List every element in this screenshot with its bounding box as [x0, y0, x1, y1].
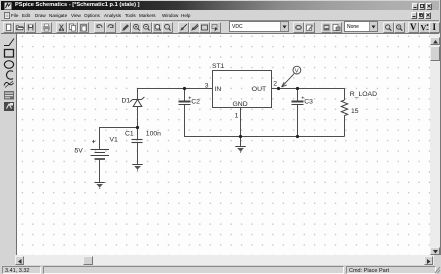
- wire node A down to C1: [137, 128, 139, 140]
- junction OUT node: [277, 87, 280, 90]
- junction C3 top: [296, 87, 299, 90]
- svg-text:2: 2: [273, 80, 277, 87]
- svg-text:ST1: ST1: [212, 63, 225, 70]
- voltage marker probe V: [282, 66, 301, 87]
- svg-text:C3: C3: [304, 99, 313, 106]
- ground under V1: [95, 183, 105, 189]
- ground under GND pin: [235, 147, 245, 153]
- wire R_LOAD bottom to rail: [344, 116, 346, 137]
- resistor R_LOAD: [341, 100, 347, 116]
- wire D1 anode down to node A: [137, 107, 139, 128]
- junction node A: [136, 126, 139, 129]
- svg-text:V1: V1: [110, 137, 119, 144]
- wire GND pin down to rail: [240, 108, 242, 137]
- svg-text:V: V: [420, 23, 426, 32]
- horizontal scrollbar: [0, 255, 15, 265]
- svg-text:1: 1: [235, 113, 239, 120]
- junction node at C2: [183, 87, 186, 90]
- menu bar: [1, 10, 439, 21]
- junction GND pin on rail: [239, 135, 242, 138]
- svg-text:C2: C2: [191, 99, 200, 106]
- svg-text:IN: IN: [215, 86, 222, 93]
- wire C2 top stub: [184, 89, 186, 102]
- svg-text:GND: GND: [233, 101, 248, 108]
- voltage source V1: [91, 140, 110, 159]
- title bar: [1, 1, 439, 10]
- capacitor C1: [132, 140, 143, 143]
- wire V1 top to node A: [100, 128, 138, 150]
- svg-text:V: V: [295, 69, 299, 75]
- svg-text:C1: C1: [125, 130, 134, 137]
- wire D1 cathode up and right to IN pin: [138, 89, 213, 100]
- capacitor C3: [292, 102, 304, 105]
- svg-text:OUT: OUT: [252, 86, 266, 93]
- schematic canvas: [17, 34, 430, 255]
- status bar: [0, 265, 441, 274]
- svg-text:D1: D1: [122, 97, 131, 104]
- wire V1 bottom to ground: [99, 159, 101, 183]
- wire C2 bottom to ground rail: [185, 105, 345, 137]
- ground under C1: [132, 165, 142, 171]
- wire C3 bottom to rail: [297, 105, 299, 137]
- vertical scrollbar: [430, 34, 440, 255]
- svg-text:15: 15: [351, 108, 359, 115]
- wire stub rail to ground symbol: [240, 137, 242, 147]
- svg-text:100n: 100n: [146, 130, 161, 137]
- wire OUT pin to R_LOAD top: [271, 89, 345, 101]
- svg-text:5V: 5V: [75, 148, 84, 155]
- regulator block ST1: [213, 71, 272, 108]
- wire C1 bottom to ground: [137, 143, 139, 165]
- toolbar: [1, 21, 439, 34]
- capacitor C2: [179, 102, 191, 105]
- svg-text:R_LOAD: R_LOAD: [350, 91, 377, 98]
- junction C3 bottom on rail: [296, 135, 299, 138]
- svg-text:3: 3: [205, 82, 209, 89]
- left tool strip: [1, 34, 17, 255]
- wire C3 top stub: [297, 89, 299, 102]
- zener diode D1: [130, 97, 144, 107]
